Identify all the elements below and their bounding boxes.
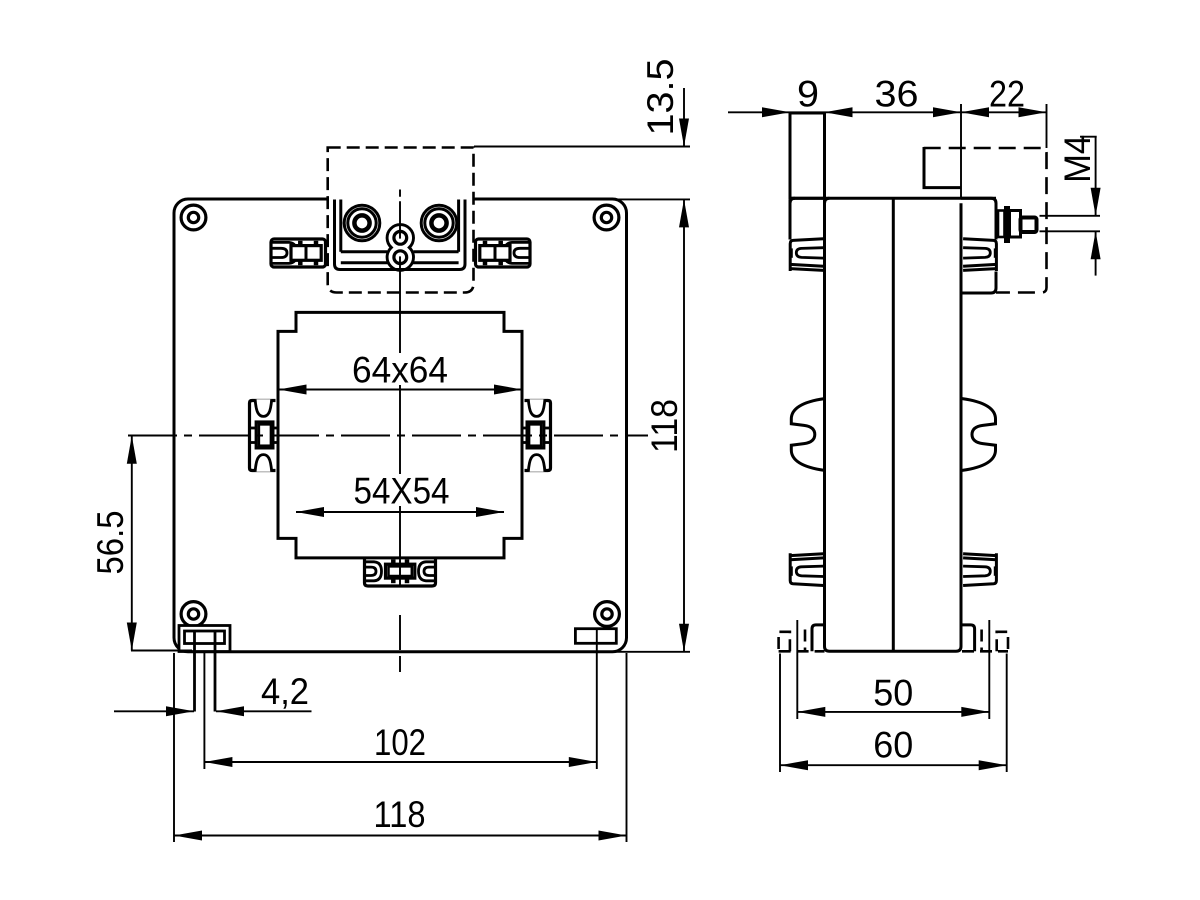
center double-hole figure-8 <box>387 225 413 271</box>
arrow 102 left <box>204 757 232 767</box>
dashed terminal cover box <box>328 148 474 293</box>
dim 13.5 and 118 right vertical line <box>683 88 685 147</box>
ext line top edge right <box>608 198 690 200</box>
dim 50 line <box>797 711 989 713</box>
terminal base block <box>961 198 996 293</box>
svg-text:102: 102 <box>374 722 426 763</box>
primary bar top column <box>790 113 825 198</box>
svg-text:22: 22 <box>989 74 1025 115</box>
right foot solid <box>962 625 975 651</box>
arrow 118 bottom left <box>174 831 202 841</box>
mid bulge right <box>962 399 995 471</box>
side clip right <box>522 399 551 472</box>
arrow 64 right <box>494 385 522 395</box>
window aperture stepped outline <box>278 312 522 558</box>
arrow 50 right <box>961 707 989 717</box>
ext 118 left <box>173 653 175 842</box>
ext line bottom edge right <box>608 651 690 653</box>
top edge cutout whiteout <box>329 197 473 202</box>
arrow 4,2 left <box>166 706 194 716</box>
arrow 4,2 right <box>216 706 244 716</box>
arrowheads <box>127 107 1101 840</box>
right foot hidden dashed <box>962 630 1008 652</box>
side clip lower-left <box>790 553 823 585</box>
arrow 118 right down <box>679 624 689 652</box>
label 54X54 <box>350 474 454 506</box>
arrow 22 left <box>961 107 989 117</box>
dashed cover box side <box>924 148 1047 293</box>
svg-text:4,2: 4,2 <box>261 671 309 712</box>
flange plate outline <box>174 199 627 652</box>
dim 102 line <box>204 761 596 763</box>
terminal step <box>924 147 961 188</box>
corner screw bottom-right <box>595 602 620 627</box>
side clip lower-right <box>963 553 996 585</box>
bottom-right foot <box>575 629 616 644</box>
svg-text:56.5: 56.5 <box>90 511 131 575</box>
svg-text:54X54: 54X54 <box>354 471 450 512</box>
dim 9/36/22 line <box>728 111 1047 113</box>
arrow 56.5 up <box>127 436 137 464</box>
ext bottom edge left <box>131 650 192 652</box>
top clip left <box>271 239 326 267</box>
dim 54X54 line <box>296 511 504 513</box>
svg-text:50: 50 <box>873 673 913 714</box>
arrow 36 right <box>933 107 961 117</box>
arrow 60 left <box>780 760 808 770</box>
arrow 22 right <box>1019 107 1047 117</box>
mid bulge left <box>791 399 824 471</box>
arrow M4 down <box>1091 188 1101 216</box>
vertical centerline <box>399 190 401 673</box>
flange edge-on columns <box>790 200 825 240</box>
svg-text:9: 9 <box>797 74 819 115</box>
bottom-left foot <box>179 626 230 712</box>
top clip right <box>476 239 531 267</box>
M4 dim line <box>1095 137 1097 216</box>
terminal screw right <box>421 205 457 241</box>
svg-text:60: 60 <box>873 725 913 766</box>
ext 102 right <box>596 629 598 770</box>
arrow 54 left <box>296 507 324 517</box>
svg-text:36: 36 <box>875 74 919 115</box>
dim 118 bottom line <box>174 835 627 837</box>
svg-text:118: 118 <box>374 794 426 835</box>
svg-text:13.5: 13.5 <box>640 59 681 136</box>
svg-text:M4: M4 <box>1057 135 1098 183</box>
svg-text:118: 118 <box>644 399 685 453</box>
ext 50 <box>796 620 798 719</box>
arrow 9 outside <box>762 107 790 117</box>
corner screw bottom-left <box>181 602 206 627</box>
arrow 13.5 down <box>679 119 689 147</box>
svg-text:64x64: 64x64 <box>352 350 448 391</box>
dim 60 line <box>780 764 1007 766</box>
arrow 60 right <box>979 760 1007 770</box>
corner screw top-left <box>181 205 206 230</box>
corner screw top-right <box>594 205 619 230</box>
side top edge <box>790 197 996 200</box>
bottom clip <box>365 558 436 586</box>
left foot hidden dashed <box>779 630 825 652</box>
dim 64x64 line <box>279 389 523 391</box>
side clip upper-right <box>963 239 996 271</box>
dim 56.5 line <box>131 436 133 651</box>
label 64x64 <box>348 353 452 385</box>
ext line cover top right <box>474 146 690 148</box>
left foot solid <box>812 625 825 651</box>
arrow 54 right <box>476 507 504 517</box>
arrow 56.5 down <box>127 623 137 651</box>
arrow 64 left <box>279 385 307 395</box>
M4 ext lines <box>1040 215 1101 217</box>
arrow M4 up <box>1091 231 1101 259</box>
flange shoulder arcs <box>790 198 830 203</box>
arrow 36 left <box>825 107 853 117</box>
arrow 102 right <box>569 757 597 767</box>
M4 bolt stack <box>998 207 1037 243</box>
arrow 118 bottom right <box>599 831 627 841</box>
terminal bracket <box>335 200 466 270</box>
arrow 118 right up <box>679 199 689 227</box>
horizontal centerline <box>128 435 648 437</box>
terminal screw left <box>344 205 380 241</box>
ext lines top side view <box>960 104 962 199</box>
body column <box>825 203 962 651</box>
ext 60 <box>779 654 781 773</box>
arrow 50 left <box>797 707 825 717</box>
side clip left <box>250 399 279 472</box>
side clip upper-left <box>790 239 823 271</box>
ext 102 left <box>203 653 205 769</box>
ext 118 right <box>626 653 628 842</box>
core split line <box>892 198 895 651</box>
dim 4,2 lines <box>114 710 194 712</box>
